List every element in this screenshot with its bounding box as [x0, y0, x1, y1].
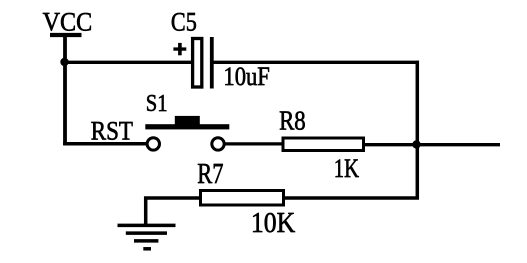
- svg-text:VCC: VCC: [43, 7, 93, 36]
- svg-text:10K: 10K: [251, 208, 295, 239]
- wire from C5 right plate to right vertical bus: [214, 61, 420, 64]
- svg-text:RST: RST: [91, 115, 133, 145]
- wire from R7 left side to ground column: [144, 196, 201, 200]
- resistor R7: [201, 191, 284, 206]
- wire from VCC bar down to RST wire: [63, 35, 67, 145]
- node junction of R8 wire with right vertical bus: [412, 140, 420, 148]
- svg-text:1K: 1K: [334, 154, 359, 183]
- wire RST net from left column to switch left terminal: [63, 142, 147, 146]
- ground symbol: [118, 225, 176, 248]
- svg-text:R8: R8: [279, 105, 306, 135]
- svg-text:10uF: 10uF: [223, 62, 270, 91]
- svg-text:C5: C5: [171, 8, 197, 37]
- wire right vertical bus: [416, 61, 420, 198]
- capacitor C5 positive plate (hollow): [193, 39, 202, 88]
- wire from switch right terminal to R8: [225, 142, 284, 145]
- pushbutton S1 cap: [175, 116, 200, 125]
- pushbutton S1 actuator bar: [145, 124, 229, 129]
- pushbutton S1 left terminal: [147, 138, 159, 150]
- svg-text:S1: S1: [146, 90, 168, 117]
- wire from junction to capacitor C5 left plate: [63, 61, 192, 64]
- capacitor C5 negative plate: [210, 37, 214, 89]
- node junction at VCC column and capacitor wire: [60, 58, 68, 66]
- wire from R7 right side to bottom of right bus: [284, 196, 419, 200]
- wire ground column down: [144, 197, 148, 228]
- wire from R8 to right bus and onward to the right edge stub: [365, 143, 501, 146]
- resistor R8: [283, 138, 364, 151]
- svg-text:R7: R7: [197, 159, 223, 190]
- pushbutton S1 right terminal: [212, 138, 224, 150]
- polarity plus sign of C5: [173, 43, 186, 55]
- power symbol VCC: [50, 33, 82, 37]
